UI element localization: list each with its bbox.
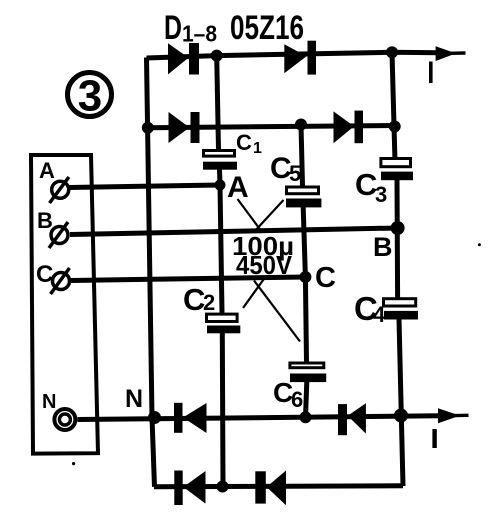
- wire top bus: [147, 52, 441, 58]
- junction row2 right: [389, 121, 401, 133]
- arrow output top: [436, 46, 456, 61]
- wire phase B line: [70, 228, 398, 235]
- label I top: [429, 62, 433, 84]
- svg-text:N: N: [125, 385, 143, 413]
- terminal A circle: [52, 181, 69, 198]
- capacitor C3: [381, 159, 413, 181]
- svg-text:C: C: [315, 262, 336, 294]
- svg-text:6: 6: [291, 387, 303, 412]
- wire bottom row: [154, 486, 403, 487]
- paper speck: [72, 462, 75, 465]
- junction bottom row: [217, 481, 229, 493]
- capacitor C2: [207, 314, 241, 333]
- svg-text:B: B: [373, 232, 393, 262]
- figure number 3 (circled): [68, 72, 112, 121]
- wire C1 column bottom stub to node A: [217, 170, 223, 186]
- wire C5 column top segment: [301, 125, 303, 187]
- svg-text:C: C: [36, 261, 53, 288]
- arrow tip dash bottom: [454, 414, 469, 418]
- svg-text:3: 3: [78, 72, 102, 121]
- svg-text:1–8: 1–8: [182, 21, 217, 47]
- svg-text:B: B: [37, 208, 53, 233]
- svg-text:D: D: [164, 9, 182, 47]
- label D1-8 05Z16: [164, 9, 304, 47]
- arrow output bottom: [438, 408, 460, 423]
- paper speck: [478, 243, 481, 246]
- svg-text:5: 5: [289, 161, 301, 186]
- junction N C6: [300, 411, 312, 423]
- wire C5 column to node C: [303, 207, 305, 277]
- pointer line to C2: [243, 280, 264, 309]
- svg-text:N: N: [42, 391, 56, 413]
- capacitor C5 label: [270, 152, 301, 186]
- capacitor C6: [290, 363, 326, 382]
- pointer line to C5: [254, 200, 284, 233]
- wire phase A line: [69, 185, 220, 188]
- svg-text:450V: 450V: [236, 250, 293, 280]
- svg-text:C: C: [236, 130, 252, 155]
- wire right vertical C4-to-bottom segment: [399, 319, 403, 486]
- node B dot: [391, 221, 405, 235]
- svg-text:3: 3: [375, 182, 387, 207]
- svg-text:2: 2: [203, 290, 215, 315]
- wire C6 column bottom stub: [306, 382, 307, 418]
- capacitor C3 label: [355, 167, 387, 207]
- capacitor C1 label: [236, 130, 262, 157]
- junction N right: [394, 409, 408, 423]
- terminal B slash: [49, 222, 68, 248]
- capacitor C4: [384, 299, 419, 320]
- capacitor C6 label: [273, 377, 303, 412]
- node A dot: [215, 180, 226, 191]
- wire phase C line: [71, 277, 305, 281]
- terminal box: [31, 155, 98, 454]
- pointer line to C6: [254, 281, 300, 342]
- capacitor C4 label: [354, 290, 386, 327]
- pointer line to C1: [238, 199, 263, 232]
- value label 100u 450V: [232, 231, 294, 280]
- svg-text:05Z16: 05Z16: [230, 9, 304, 47]
- wire C1 column top segment: [217, 56, 219, 150]
- svg-text:A: A: [39, 158, 55, 183]
- arrow tip dash top: [449, 51, 466, 55]
- wire C2 column bottom segment: [220, 333, 226, 487]
- junction row2 C5: [295, 119, 307, 131]
- junction top C1: [211, 50, 223, 62]
- wire right vertical C3-to-B segment: [395, 180, 401, 299]
- terminal B circle: [51, 227, 68, 244]
- junction row2 left: [142, 122, 154, 134]
- diode D2: [284, 41, 316, 75]
- terminal C circle: [53, 273, 70, 290]
- wire C2 column node A to C2: [220, 185, 222, 313]
- terminal N inner circle: [59, 414, 70, 425]
- wire right vertical top segment: [392, 52, 395, 158]
- capacitor C1: [203, 151, 237, 170]
- wire N bus: [78, 416, 441, 420]
- wire C6 column node C to C6: [305, 277, 306, 362]
- node C dot: [299, 271, 311, 283]
- diode D1: [168, 43, 199, 75]
- junction N left: [148, 411, 161, 424]
- terminal C slash: [51, 268, 70, 294]
- diode D4: [334, 111, 364, 144]
- svg-text:4: 4: [373, 302, 386, 327]
- diode D5: [174, 403, 207, 433]
- wire left vertical: [147, 58, 155, 487]
- diode D3: [169, 112, 200, 143]
- label I bottom: [432, 429, 436, 448]
- capacitor C2 label: [183, 282, 215, 317]
- diode D7: [174, 471, 205, 506]
- junction top right: [386, 46, 398, 58]
- wire second diode row: [148, 126, 395, 128]
- capacitor C5: [286, 187, 321, 207]
- svg-text:1: 1: [253, 140, 262, 157]
- diode D8: [255, 471, 286, 506]
- diode D6: [338, 403, 366, 435]
- terminal N outer circle: [54, 409, 75, 430]
- terminal A slash: [50, 177, 69, 203]
